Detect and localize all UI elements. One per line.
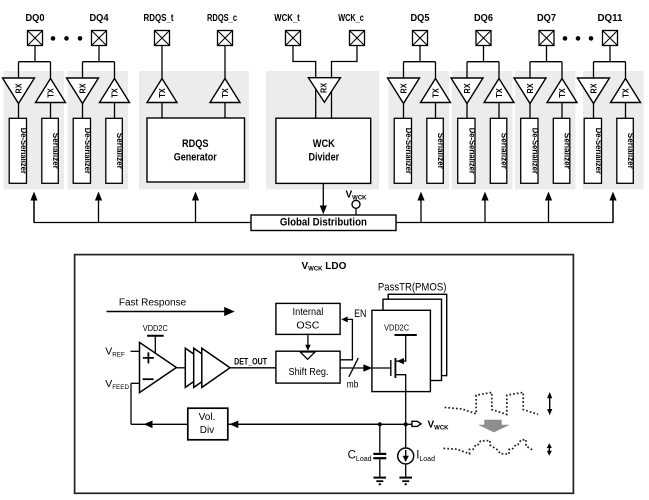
wire EN (Shift Reg to Internal OSC) <box>340 316 352 359</box>
TX amplifier (DQ0) <box>36 79 66 103</box>
wire TX to Serializer (DQ7) <box>561 103 563 119</box>
wire DQ0 pad to RX/TX <box>19 46 51 79</box>
svg-text:TX: TX <box>432 88 441 98</box>
wire comparator output <box>176 367 186 369</box>
svg-text:TX: TX <box>495 88 504 98</box>
svg-text:TX: TX <box>47 88 56 98</box>
TX amplifier (DQ5) <box>421 79 451 103</box>
TX amplifier (DQ7) <box>547 79 577 103</box>
svg-text:RX: RX <box>15 83 24 94</box>
ellipsis dots between DQ0 and DQ4 <box>51 36 83 41</box>
svg-text:Generator: Generator <box>174 151 218 163</box>
svg-text:Serializer: Serializer <box>115 133 124 169</box>
svg-text:De-Serializer: De-Serializer <box>594 128 603 174</box>
Serializer block (DQ7) <box>553 118 571 183</box>
svg-text:Serializer: Serializer <box>436 133 445 169</box>
svg-text:CLoad: CLoad <box>348 450 372 464</box>
Serializer block (DQ5) <box>427 118 445 183</box>
transistor Q1 PMOS <box>391 335 406 424</box>
pad DQ0 <box>28 31 43 46</box>
svg-text:mb: mb <box>347 378 359 390</box>
svg-text:DQ0: DQ0 <box>26 13 45 24</box>
DQ7 lane background <box>515 71 576 190</box>
wire DET_OUT <box>230 367 276 369</box>
svg-text:VWCK: VWCK <box>346 190 368 202</box>
pad DQ4 <box>92 31 107 46</box>
wire TX to RDQS Generator (t) <box>161 103 163 119</box>
arrow on feedback wire near V_FEED corner <box>144 421 153 429</box>
node V_WCK (terminal on Global Distribution) <box>352 200 360 215</box>
svg-text:DQ11: DQ11 <box>598 13 623 24</box>
amplitude arrow (small) <box>547 443 552 456</box>
pad DQ7 <box>539 31 554 46</box>
svg-text:DET_OUT: DET_OUT <box>234 356 267 366</box>
svg-text:VDD2C: VDD2C <box>143 324 168 333</box>
svg-text:ILoad: ILoad <box>416 450 435 464</box>
svg-text:RX: RX <box>79 83 88 94</box>
V_WCK output port <box>412 421 421 426</box>
wire: V_WCK distribution riser to DQ4 <box>95 192 102 223</box>
RX amplifier (DQ6) <box>451 78 483 104</box>
WCK Divider block <box>276 118 371 183</box>
svg-text:RDQS_c: RDQS_c <box>207 13 237 24</box>
RX amplifier (DQ11) <box>578 78 610 104</box>
De-Serializer block (DQ7) <box>521 118 540 183</box>
svg-text:RX: RX <box>590 83 599 94</box>
gray transition arrow <box>478 420 510 433</box>
TX amplifier (DQ11) <box>611 79 641 103</box>
Serializer block (DQ0) <box>42 118 60 183</box>
wire RX to De-Serializer (DQ6) <box>466 104 468 119</box>
svg-text:Vol.: Vol. <box>199 412 216 423</box>
svg-text:Divider: Divider <box>309 151 340 163</box>
wire: left distribution bus <box>34 197 251 223</box>
Serializer block (DQ11) <box>617 118 635 183</box>
svg-text:De-Serializer: De-Serializer <box>467 128 476 174</box>
pad RDQS_c <box>218 31 233 46</box>
svg-text:Internal: Internal <box>293 307 324 318</box>
svg-text:DQ7: DQ7 <box>537 13 556 24</box>
RX amplifier (DQ4) <box>67 78 99 104</box>
wire V_FEED input <box>131 382 140 384</box>
TX amplifier (RDQS_c) <box>210 79 240 103</box>
wire WCK_c pad to RX <box>332 46 358 119</box>
current source I_Load <box>398 424 414 477</box>
wire TX to Serializer (DQ4) <box>114 103 116 119</box>
pad WCK_c <box>350 31 365 46</box>
amplitude arrow (large) <box>547 392 552 415</box>
wire TX to RDQS Generator (c) <box>224 103 226 119</box>
waveform after (small ripple) <box>444 440 534 454</box>
svg-text:TX: TX <box>158 88 167 98</box>
wire V_REF input <box>131 350 140 352</box>
svg-text:Serializer: Serializer <box>500 133 509 169</box>
De-Serializer block (DQ4) <box>73 118 92 183</box>
svg-text:WCK_c: WCK_c <box>338 13 364 24</box>
wire DQ11 pad to RX/TX <box>594 46 626 79</box>
svg-text:VDD2C: VDD2C <box>384 323 409 332</box>
pad DQ11 <box>603 31 618 46</box>
V_WCK LDO outer box <box>75 255 574 494</box>
DQ5 lane background <box>389 71 450 190</box>
junction drain / I_Load tap <box>404 422 408 426</box>
Global Distribution block <box>251 215 396 231</box>
wire: V_WCK distribution riser to DQ5 <box>417 192 424 223</box>
svg-text:Serializer: Serializer <box>626 133 635 169</box>
RX amplifier (DQ7) <box>514 78 546 104</box>
PassTR middle box <box>383 299 442 380</box>
pad RDQS_t <box>155 31 170 46</box>
svg-text:RX: RX <box>400 83 409 94</box>
svg-text:RDQS_t: RDQS_t <box>144 13 175 24</box>
svg-text:Global Distribution: Global Distribution <box>280 217 367 229</box>
RDQS Generator block <box>147 118 245 182</box>
wire RX to De-Serializer (DQ5) <box>403 104 405 119</box>
supply VDD2C (PassTR) <box>384 323 417 335</box>
wire: right distribution bus <box>396 197 613 223</box>
svg-text:RX: RX <box>526 83 535 94</box>
svg-text:Fast Response: Fast Response <box>119 298 187 309</box>
pad DQ5 <box>413 31 428 46</box>
svg-text:De-Serializer: De-Serializer <box>83 128 92 174</box>
wire RX to De-Serializer (DQ4) <box>82 104 84 119</box>
TX amplifier (RDQS_t) <box>147 79 177 103</box>
svg-text:DQ4: DQ4 <box>90 13 109 24</box>
wire feedback rail to Vol. Div <box>228 423 380 425</box>
De-Serializer block (DQ6) <box>458 118 477 183</box>
wire TX to Serializer (DQ11) <box>625 103 627 119</box>
RX amplifier (WCK) <box>308 78 340 103</box>
svg-text:TX: TX <box>622 88 631 98</box>
arrow into Vol. Div right edge <box>230 421 239 429</box>
svg-text:TX: TX <box>558 88 567 98</box>
wire V_WCK output rail <box>131 423 412 425</box>
waveform before (large ripple) <box>445 392 538 414</box>
Serializer block (DQ4) <box>106 118 124 183</box>
buffer chain B2 <box>194 348 222 387</box>
TX amplifier (DQ4) <box>100 79 130 103</box>
Internal OSC block <box>276 303 340 334</box>
Serializer block (DQ6) <box>490 118 508 183</box>
wire WCK Divider to Global Distribution (arrow) <box>320 183 327 214</box>
wire: V_WCK distribution riser to DQ6 <box>481 192 488 223</box>
wire feedback vertical (V_FEED) <box>130 383 132 424</box>
svg-text:RX: RX <box>463 83 472 94</box>
svg-text:EN: EN <box>354 308 366 320</box>
op-amp comparator U1 <box>140 342 177 392</box>
svg-text:TX: TX <box>111 88 120 98</box>
wire: V_WCK distribution riser to DQ11 <box>609 192 616 223</box>
De-Serializer block (DQ0) <box>9 118 28 183</box>
wire: V_WCK distribution riser to RDQS Generator <box>192 192 199 223</box>
wire RDQS_c pad to TX <box>224 46 226 79</box>
bus slash mark <box>349 358 358 377</box>
pad DQ6 <box>476 31 491 46</box>
svg-text:OSC: OSC <box>296 321 319 332</box>
supply VDD2C (comparator) <box>143 324 168 353</box>
svg-text:WCK_t: WCK_t <box>274 13 300 24</box>
wire DQ4 pad to RX/TX <box>83 46 115 79</box>
svg-text:DQ5: DQ5 <box>411 13 430 24</box>
svg-text:Shift Reg.: Shift Reg. <box>289 367 329 378</box>
wire RX to De-Serializer (DQ0) <box>18 104 20 119</box>
svg-text:DQ6: DQ6 <box>474 13 493 24</box>
svg-text:RX: RX <box>320 82 329 93</box>
ground (C_Load) <box>374 478 387 485</box>
wire OSC clock to Shift Reg (arrow) <box>305 335 311 351</box>
RDQS lane background <box>139 71 249 190</box>
svg-text:RDQS: RDQS <box>182 138 209 150</box>
wire RDQS_t pad to TX <box>161 46 163 79</box>
svg-text:De-Serializer: De-Serializer <box>404 128 413 174</box>
ellipsis dots between DQ7 and DQ11 <box>563 36 594 41</box>
svg-text:VWCK LDO: VWCK LDO <box>302 261 347 273</box>
Vol. Div block <box>188 408 228 440</box>
wire WCK_t pad to RX <box>293 46 316 119</box>
wire DQ6 pad to RX/TX <box>467 46 499 79</box>
wire RX to De-Serializer (DQ7) <box>529 104 531 119</box>
ground (I_Load) <box>399 478 412 485</box>
svg-text:VWCK: VWCK <box>428 420 450 432</box>
wire Shift Reg output to PMOS gate <box>340 364 391 372</box>
wire TX to Serializer (DQ6) <box>498 103 500 119</box>
Shift Reg block <box>276 351 340 383</box>
svg-text:De-Serializer: De-Serializer <box>19 128 28 174</box>
svg-text:VFEED: VFEED <box>105 378 129 391</box>
arrow Fast Response <box>107 307 235 316</box>
wire DQ5 pad to RX/TX <box>404 46 436 79</box>
wire: V_WCK distribution riser to DQ0 <box>30 192 37 223</box>
PassTR back box <box>388 294 447 375</box>
pad WCK_t <box>286 31 301 46</box>
svg-text:De-Serializer: De-Serializer <box>530 128 539 174</box>
wire TX to Serializer (DQ5) <box>435 103 437 119</box>
clock input triangle on Shift Reg <box>300 352 315 359</box>
buffer chain B1 <box>185 348 213 387</box>
TX amplifier (DQ6) <box>484 79 514 103</box>
svg-text:TX: TX <box>221 88 230 98</box>
DQ4 lane background <box>68 71 129 190</box>
DQ6 lane background <box>452 71 513 190</box>
De-Serializer block (DQ11) <box>584 118 603 183</box>
DQ0 lane background <box>4 71 65 190</box>
svg-text:PassTR(PMOS): PassTR(PMOS) <box>378 281 447 293</box>
wire RX to De-Serializer (DQ11) <box>593 104 595 119</box>
PassTR front box <box>372 310 431 391</box>
capacitor C_Load <box>373 424 386 477</box>
wire: V_WCK distribution riser to DQ7 <box>545 192 552 223</box>
svg-text:Div: Div <box>200 425 214 436</box>
junction C_Load tap <box>378 422 382 426</box>
svg-text:VREF: VREF <box>105 346 125 359</box>
svg-text:Serializer: Serializer <box>51 133 60 169</box>
wire TX to Serializer (DQ0) <box>50 103 52 119</box>
De-Serializer block (DQ5) <box>394 118 413 183</box>
DQ11 lane background <box>583 71 644 190</box>
svg-text:Serializer: Serializer <box>563 133 572 169</box>
buffer chain B3 <box>202 348 230 387</box>
RX amplifier (DQ5) <box>388 78 420 104</box>
svg-text:WCK: WCK <box>313 138 335 150</box>
WCK lane background <box>266 71 379 190</box>
wire DQ7 pad to RX/TX <box>530 46 562 79</box>
RX amplifier (DQ0) <box>3 78 35 104</box>
